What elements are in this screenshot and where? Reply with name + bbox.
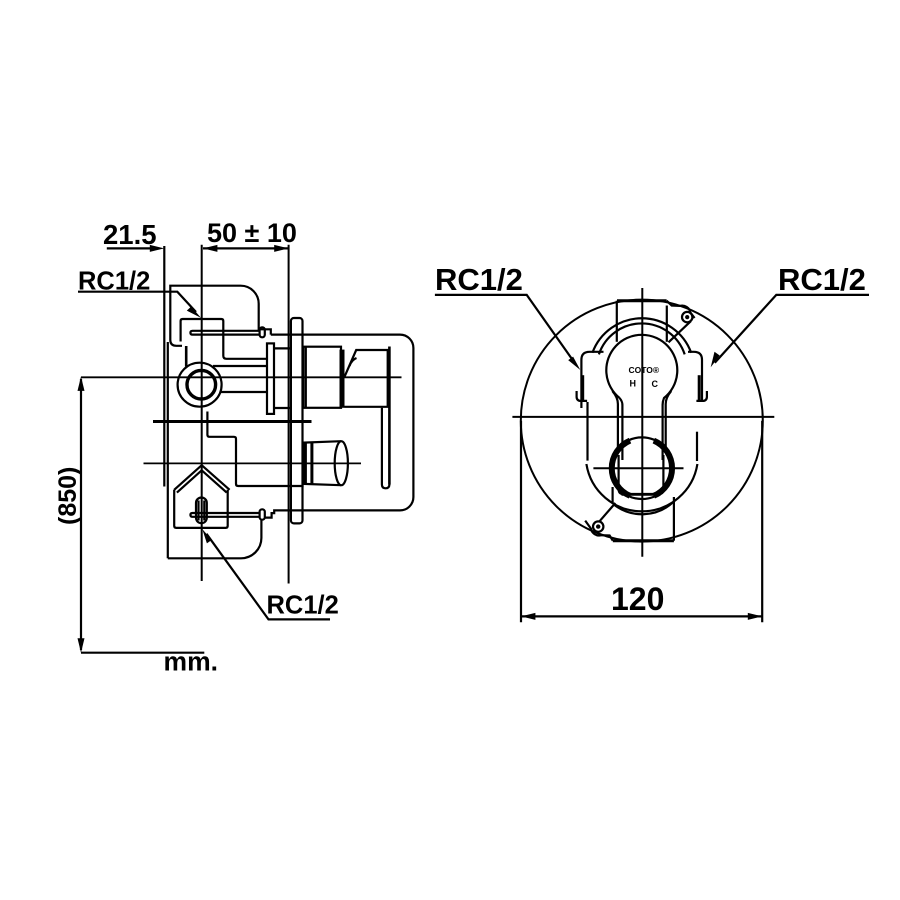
- cartridge front face line: [305, 347, 307, 408]
- dim 50 right arrow: [274, 245, 288, 252]
- body lower right corner: [168, 520, 262, 558]
- funnel screw inner lines: [199, 501, 205, 521]
- dim 21.5 line: [107, 247, 158, 249]
- spout flange thick: [310, 442, 313, 484]
- funnel screw capsule: [196, 498, 207, 524]
- lower block outline: [207, 412, 303, 487]
- RC1/2 top-left arrowhead: [187, 307, 201, 318]
- handle outline: [265, 335, 414, 518]
- square plate left part: [581, 352, 603, 402]
- ext line 120 right: [761, 421, 763, 623]
- centerline top port: [81, 376, 402, 378]
- cartridge shaft lines: [274, 348, 291, 408]
- plate left lower edge: [586, 402, 588, 461]
- svg-text:RC1/2: RC1/2: [267, 592, 339, 620]
- bottom screw inner: [596, 524, 600, 528]
- svg-text:120: 120: [611, 581, 664, 617]
- dim 50 line: [203, 247, 289, 249]
- RC1/2 mid arrowhead: [568, 357, 580, 370]
- lever bar right thick: [388, 347, 391, 485]
- top screw cap: [260, 327, 265, 337]
- spout top edge: [304, 441, 341, 442]
- svg-text:21.5: 21.5: [103, 219, 157, 250]
- plate right port thick: [698, 375, 701, 400]
- top long screw shaft: [190, 331, 259, 335]
- RC1/2 top-left underline and leader: [78, 292, 196, 312]
- plate right lower edge: [696, 432, 698, 461]
- funnel box: [174, 490, 228, 528]
- lever end box: [619, 455, 664, 494]
- capsule right edge lower: [673, 497, 675, 541]
- dim 850 vertical line: [80, 379, 82, 650]
- svg-text:C: C: [652, 379, 659, 389]
- outer wall circle: [521, 300, 763, 542]
- bottom screw outer: [593, 521, 603, 531]
- neck right line: [661, 405, 663, 461]
- svg-text:RC1/2: RC1/2: [778, 262, 866, 297]
- plate bottom arc: [586, 464, 697, 511]
- knob cup arc: [613, 502, 673, 514]
- pipe line lower: [213, 365, 267, 367]
- capsule right edge upper: [666, 306, 668, 342]
- plate bottom left short edge: [580, 402, 582, 408]
- capsule top edge: [617, 299, 667, 302]
- plate left port thick: [581, 375, 584, 400]
- extension line center axis: [201, 245, 203, 581]
- neck outer wall left: [612, 391, 618, 448]
- RC1/2 right arrowhead: [711, 352, 720, 368]
- escutcheon plate edge-on: [291, 318, 303, 523]
- lever bar left: [381, 408, 383, 485]
- svg-text:50 ± 10: 50 ± 10: [207, 218, 297, 248]
- spout end cap ellipse: [335, 441, 348, 485]
- port bottom-left corner: [577, 391, 588, 401]
- dim 120 left arrow: [521, 613, 535, 620]
- spout base lines: [304, 442, 306, 485]
- RC1/2 bottom arrowhead: [202, 529, 212, 543]
- top screw outer: [682, 312, 692, 322]
- trim ring outer circle: [178, 363, 222, 407]
- capsule top-right notch: [667, 301, 695, 318]
- square plate right part: [688, 352, 702, 401]
- trim ring inner circle: [187, 370, 216, 399]
- body left step: [170, 340, 182, 346]
- handle hub circle: [606, 335, 677, 405]
- dim 120 line: [521, 615, 762, 617]
- funnel inner V: [177, 470, 227, 492]
- handle hub trapezoid: [345, 350, 388, 407]
- valve body upper block outline: [170, 286, 270, 340]
- crosshair vertical: [641, 288, 643, 557]
- port bottom-right corner: [696, 391, 707, 401]
- crosshair horizontal: [512, 416, 774, 418]
- svg-text:mm.: mm.: [164, 647, 219, 677]
- hub fillet: [350, 358, 357, 366]
- extension line 50 right: [288, 245, 290, 584]
- centerline bottom port: [144, 462, 362, 464]
- knob thick right arc: [654, 441, 672, 496]
- bottom long screw shaft: [190, 513, 259, 517]
- bezel middle arc: [599, 323, 685, 354]
- svg-text:COTO®: COTO®: [629, 365, 660, 375]
- RC1/2 bottom underline and leader: [207, 534, 331, 620]
- spout bottom edge: [304, 484, 341, 485]
- svg-text:H: H: [630, 379, 637, 389]
- dim 120 right arrow: [748, 613, 762, 620]
- neck outer wall right: [666, 391, 672, 448]
- block left thick edge: [185, 346, 188, 367]
- RC1/2 right underline leader: [715, 295, 869, 363]
- capsule left edge upper: [616, 301, 618, 342]
- pipe line bottom: [221, 391, 268, 393]
- neck left line: [621, 405, 623, 461]
- bottom screw diagonal: [600, 503, 616, 521]
- dim 850 top arrow: [78, 377, 85, 391]
- top screw diagonal: [669, 321, 691, 342]
- knob centerline: [593, 467, 683, 469]
- thick section line: [153, 420, 312, 423]
- capsule left edge lower: [611, 487, 613, 504]
- dim 21.5 arrow: [150, 245, 164, 252]
- inner block rounded rect: [181, 319, 267, 359]
- dim 850 foot line: [81, 652, 204, 654]
- svg-text:RC1/2: RC1/2: [435, 262, 523, 297]
- RC1/2 mid underline leader: [435, 295, 576, 364]
- extension line wall: [163, 246, 165, 487]
- knob thick left arc: [612, 441, 630, 496]
- svg-text:(850): (850): [54, 467, 82, 525]
- ext line 120 left: [520, 421, 522, 623]
- wall plate edge line: [167, 342, 169, 558]
- bezel outer arc: [592, 318, 691, 353]
- bottom screw cap: [260, 509, 265, 519]
- knob circle: [611, 437, 673, 499]
- valve stem dark bar: [340, 350, 345, 408]
- dim 50 left arrow: [203, 245, 217, 252]
- cartridge front block: [303, 347, 341, 408]
- lever end box bottom thick: [622, 493, 661, 496]
- cartridge flange: [267, 343, 274, 414]
- dim 850 bottom arrow: [78, 638, 85, 652]
- capsule bottom-left notch: [585, 521, 613, 541]
- lever tip cap: [382, 485, 390, 489]
- funnel outer V: [174, 465, 229, 490]
- capsule bottom edge: [613, 539, 674, 542]
- top screw inner: [685, 315, 689, 319]
